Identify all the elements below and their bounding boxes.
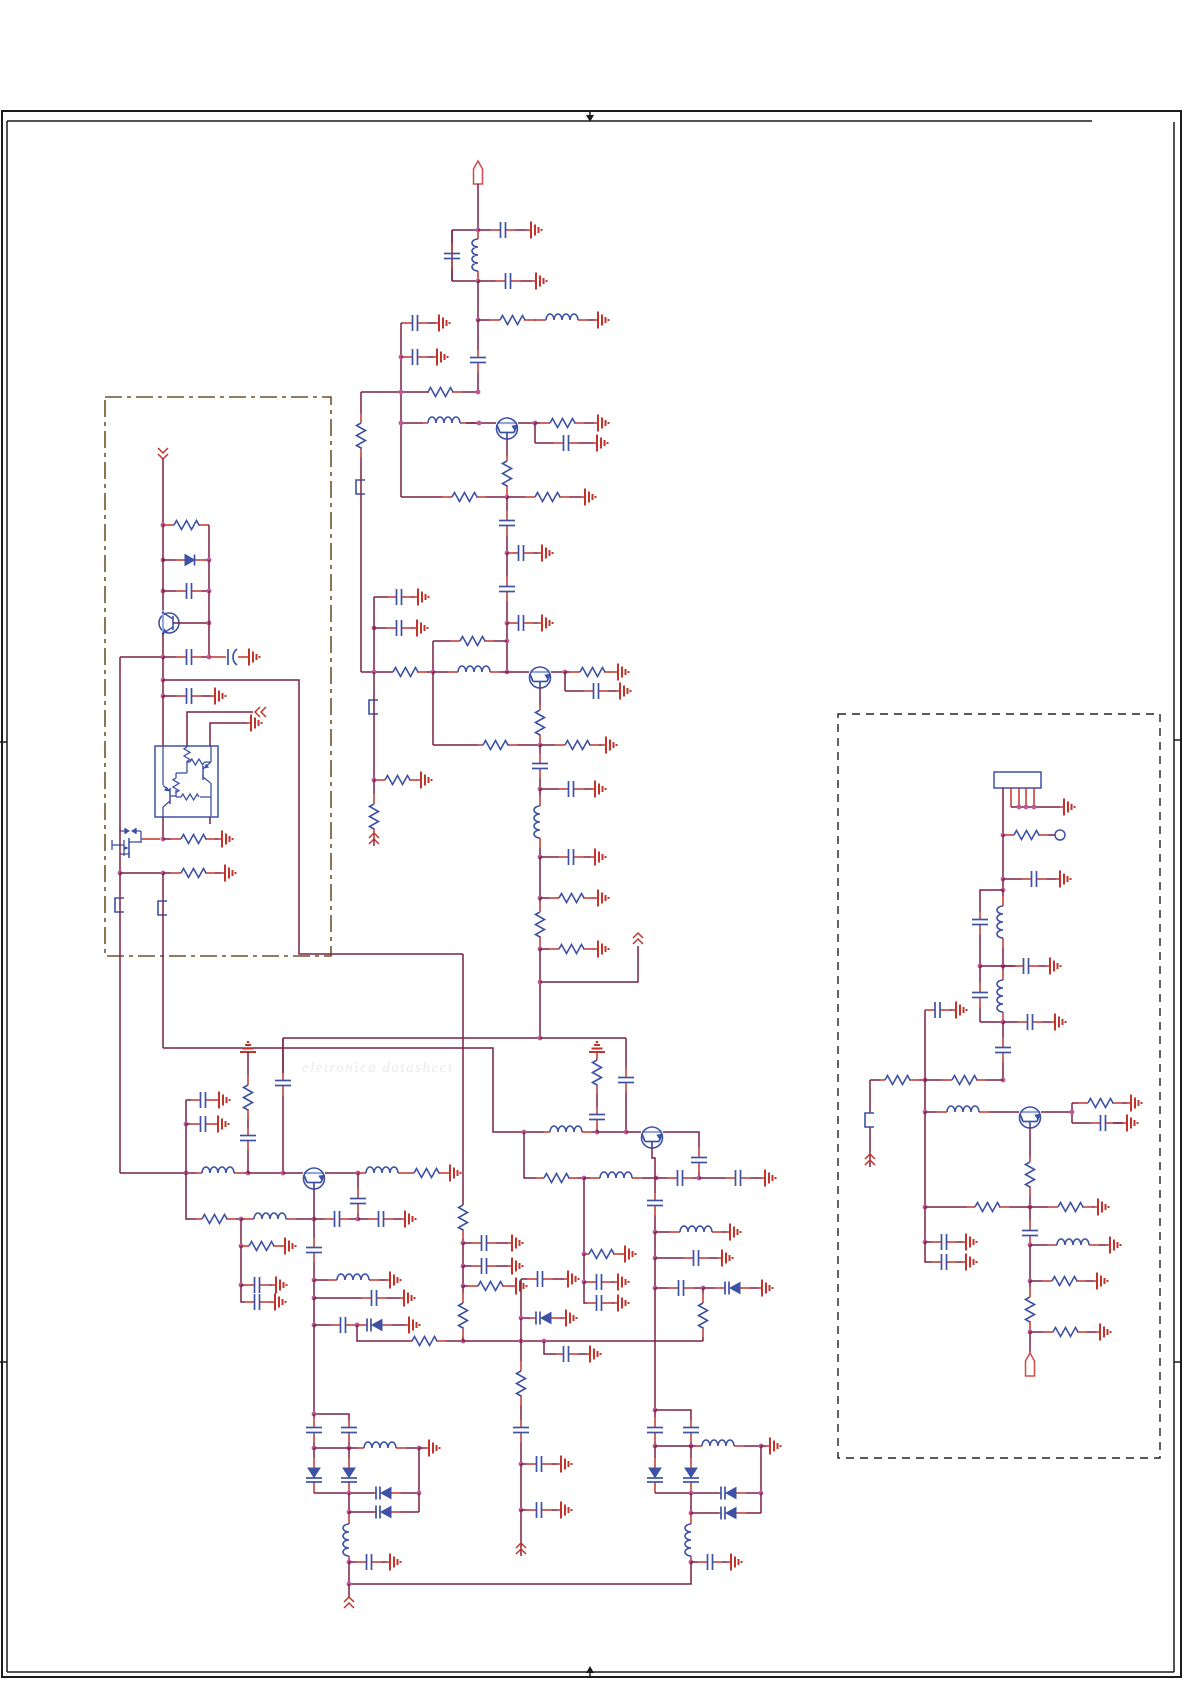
ground G48 xyxy=(614,1295,629,1312)
inductor L5 xyxy=(534,789,540,857)
ground G69 xyxy=(564,1271,579,1288)
transistor Q6 xyxy=(642,1127,663,1148)
resistor R42 xyxy=(1030,1277,1093,1286)
wire x209 591-657 xyxy=(208,591,210,657)
node 655-1446 xyxy=(653,1444,658,1449)
wire x925 top corner xyxy=(924,1010,926,1080)
antenna ANT2 xyxy=(1026,1353,1035,1376)
wire bus y1038 xyxy=(283,1037,540,1039)
wire L8 to 314 xyxy=(298,1218,314,1220)
transistor Q1 xyxy=(497,418,518,439)
resistor R37 xyxy=(925,1076,1003,1085)
capacitor C41 xyxy=(691,1145,707,1178)
node 584-1282 xyxy=(582,1280,587,1285)
inductor L20 xyxy=(1030,1239,1106,1245)
resistor R21 xyxy=(163,869,221,878)
node 419-1493 xyxy=(417,1491,422,1496)
capacitor C1 xyxy=(444,230,460,281)
node 507-553 xyxy=(505,551,510,556)
wire x507 623-672 xyxy=(506,623,508,672)
inductor L15 xyxy=(358,1442,419,1448)
ground G64 xyxy=(962,1254,977,1271)
node 479-423 xyxy=(477,421,482,426)
capacitor C12 xyxy=(388,589,414,605)
resistor R2 xyxy=(428,388,478,397)
ground G47 xyxy=(614,1274,629,1291)
node 565-672 xyxy=(563,670,568,675)
wire x349 1562-1584 xyxy=(348,1562,350,1584)
capacitor C64 xyxy=(932,1254,962,1270)
resistor R36 xyxy=(880,1076,925,1085)
wire 680 to right riser xyxy=(163,680,463,954)
ground G34 xyxy=(386,1272,401,1289)
ground G11 xyxy=(414,589,429,606)
terminal TP1 xyxy=(1055,830,1065,840)
node antenna-281 xyxy=(476,279,481,284)
resistor R22 xyxy=(406,1169,446,1178)
ground G9 xyxy=(538,545,553,562)
node 535-423 xyxy=(533,421,538,426)
inductor L7 xyxy=(358,1167,406,1173)
capacitor C48 xyxy=(655,1250,718,1266)
resistor R8 xyxy=(357,392,366,480)
resistor R15 xyxy=(536,898,545,949)
wire x314 1280-1298 xyxy=(313,1280,315,1298)
wire row497 xyxy=(401,496,430,498)
capacitor C37 xyxy=(513,1420,529,1464)
wire x524 down xyxy=(524,1132,536,1178)
resistor R7 xyxy=(433,637,507,646)
wire vin down xyxy=(162,459,164,525)
wire C62 lead xyxy=(1113,1122,1123,1124)
capacitor C53 xyxy=(341,1420,357,1448)
capacitor C50 xyxy=(683,1420,699,1446)
ground G13 xyxy=(614,664,629,681)
node 691-1493 xyxy=(689,1491,694,1496)
wire x186 1173-1219 xyxy=(186,1173,196,1219)
node 419-1448 xyxy=(417,1446,422,1451)
ground G25 xyxy=(221,865,236,882)
node 655-1410 xyxy=(653,1408,658,1413)
wire x163 591-613 xyxy=(162,591,164,613)
capacitor C36 xyxy=(463,1258,508,1274)
node 655-1258 xyxy=(653,1256,658,1261)
wire row873 xyxy=(120,872,163,874)
wire x120 bracket down xyxy=(119,898,121,1173)
capacitor C65 xyxy=(1022,1207,1038,1245)
ground G3 xyxy=(594,312,609,329)
wire x283 riser top xyxy=(282,1038,284,1073)
wire IC out bottom xyxy=(162,817,164,839)
capacitor C5 xyxy=(401,315,435,331)
node 699-1178 xyxy=(697,1176,702,1181)
capacitor C33 xyxy=(314,1290,400,1306)
node 374-780 xyxy=(372,778,377,783)
ground G5 xyxy=(433,349,448,366)
node 314-1325 xyxy=(312,1323,317,1328)
wire row657 left xyxy=(120,656,163,658)
border zone tick right xyxy=(1174,739,1181,741)
resistor R14 xyxy=(540,894,594,903)
wire left branch bottom xyxy=(452,280,478,282)
ground G55 xyxy=(386,1554,401,1571)
node 980-966 xyxy=(978,964,983,969)
node 248-1173 xyxy=(246,1171,251,1176)
wire x521 top xyxy=(521,1317,530,1319)
node 120-873 xyxy=(118,871,123,876)
ground G38 xyxy=(508,1258,523,1275)
node 209-591 xyxy=(207,589,212,594)
ground G50 xyxy=(718,1250,733,1267)
node 463-1286 xyxy=(461,1284,466,1289)
resistor R44 xyxy=(1030,1328,1096,1337)
ground G43 xyxy=(586,1346,601,1363)
wire x374 597-672 xyxy=(373,597,375,672)
node 655-1288 xyxy=(653,1286,658,1291)
wire x186 top xyxy=(186,1099,191,1101)
wire x980 to 1022 xyxy=(980,1021,1003,1023)
resistor R32 xyxy=(536,1174,584,1183)
wire Q6 emitter right xyxy=(663,1132,699,1145)
capacitor C52 xyxy=(691,1554,727,1570)
diode D10 xyxy=(341,1448,357,1493)
wire row1493 right xyxy=(655,1492,719,1494)
ground G19 xyxy=(594,941,609,958)
wire IC pin3 riser xyxy=(210,723,247,746)
node 241-1219 xyxy=(239,1217,244,1222)
node 357-1325 xyxy=(355,1323,360,1328)
node 349-1562 xyxy=(347,1560,352,1565)
capacitor C13 xyxy=(374,620,413,636)
node 1003-835 xyxy=(1001,833,1006,838)
node 186-1124 xyxy=(184,1122,189,1127)
node 349-1512 xyxy=(347,1510,352,1515)
capacitor C26 xyxy=(186,1116,214,1132)
ground G8 xyxy=(581,489,596,506)
wire x314 1325-1414 xyxy=(313,1325,315,1414)
transistor Q3 xyxy=(159,610,179,636)
wire x1030 1245-1281 xyxy=(1029,1245,1031,1281)
ground G2 xyxy=(532,273,547,290)
wire 641 corner xyxy=(432,641,434,672)
capacitor C35 xyxy=(463,1235,508,1251)
transistor Q2 xyxy=(530,667,551,688)
node 209-560 xyxy=(207,558,212,563)
node 283-1173 xyxy=(281,1171,286,1176)
node antenna-230 xyxy=(476,228,481,233)
node 761-1446 xyxy=(759,1444,764,1449)
wire x925 1080-1112 xyxy=(924,1080,926,1112)
inductor L18 xyxy=(997,966,1003,1022)
node 433-672 xyxy=(431,670,436,675)
node 463-1341 xyxy=(461,1339,466,1344)
wire row745 xyxy=(433,744,478,746)
wire 419 to ground xyxy=(419,1447,425,1449)
wire row1080 left xyxy=(870,1079,880,1081)
node 544-1341 xyxy=(542,1339,547,1344)
ground G60 xyxy=(1127,1095,1142,1112)
capacitor C14 xyxy=(565,683,616,699)
wire x463 1243-1266 xyxy=(462,1243,464,1266)
wire row966 xyxy=(980,965,1016,967)
resistor R24 xyxy=(196,1215,241,1224)
border zone tick top center with down arrow xyxy=(586,112,594,122)
wire 597 to 626 xyxy=(597,1131,626,1133)
node 209-623 xyxy=(207,621,212,626)
wire x163 696-746 xyxy=(162,696,164,746)
resistor R1 xyxy=(478,316,534,325)
connector CN1 pins xyxy=(1011,788,1034,807)
node 241-1246 xyxy=(239,1244,244,1249)
node 1034-807 xyxy=(1032,805,1037,810)
ground G14 xyxy=(616,683,631,700)
resistor R29 xyxy=(459,1286,468,1341)
diode D9 xyxy=(306,1448,322,1493)
ground G66 xyxy=(1093,1273,1108,1290)
node 626-1132 xyxy=(624,1130,629,1135)
wire 565 down branch xyxy=(564,672,566,691)
ground G67 xyxy=(1096,1324,1111,1341)
wire x655 1232-1258 xyxy=(654,1232,656,1258)
wire x120 657-873 xyxy=(119,657,121,873)
node 314-1414 xyxy=(312,1412,317,1417)
wire x314 1298-1325 xyxy=(313,1298,315,1325)
wire 283 to Q5 xyxy=(283,1172,303,1174)
node 507-641 xyxy=(505,639,510,644)
diode D5 xyxy=(647,1446,663,1493)
wire Q5 emitter xyxy=(325,1172,358,1174)
wire Q5 base xyxy=(313,1189,315,1219)
node 374-628 xyxy=(372,626,377,631)
wire row1173 left xyxy=(120,1172,196,1174)
wire D7 to 761 xyxy=(760,1446,762,1493)
node 656-1178 xyxy=(654,1176,659,1181)
wire row672 xyxy=(361,671,393,673)
resistor R17 xyxy=(374,776,417,785)
ground G62 xyxy=(1094,1199,1109,1216)
power VCC1 xyxy=(633,933,643,944)
capacitor C45 xyxy=(584,1274,614,1290)
resistor R11 xyxy=(536,705,545,745)
capacitor C49 xyxy=(655,1280,703,1296)
node 540-982 xyxy=(538,980,543,985)
capacitor C51 xyxy=(647,1410,663,1446)
inductor L1 xyxy=(472,230,478,281)
resistor R6 xyxy=(507,493,581,502)
node 314-1298 xyxy=(312,1296,317,1301)
node 1019-807 xyxy=(1017,805,1022,810)
capacitor C62 xyxy=(1072,1115,1123,1131)
capacitor C43 xyxy=(656,1170,699,1186)
capacitor C42 xyxy=(589,1107,605,1132)
node 521-1341 xyxy=(519,1339,524,1344)
ground G39 xyxy=(512,1278,527,1295)
wire x925 1207-1242 xyxy=(924,1207,926,1242)
power VCC2 xyxy=(369,833,379,844)
wire row1132 xyxy=(520,1131,544,1133)
wire x374 672-780 xyxy=(373,672,375,780)
ground G29 xyxy=(214,1116,229,1133)
inductor L4 xyxy=(433,666,529,672)
wire Q7 base down xyxy=(1029,1128,1031,1157)
wire 1038 to x626 xyxy=(540,1037,626,1039)
wire 1512 lead xyxy=(349,1511,374,1513)
wire x120 below 873 xyxy=(119,873,121,898)
capacitor C30 xyxy=(241,1277,272,1293)
ground G52 xyxy=(766,1438,781,1455)
node 314-1219 xyxy=(312,1217,317,1222)
node 507-497 xyxy=(505,495,510,500)
capacitor C28 xyxy=(314,1211,358,1227)
wire x241 down xyxy=(240,1219,242,1246)
jumper J5 xyxy=(865,1113,874,1127)
node 691-1446 xyxy=(689,1444,694,1449)
wire IC pin2 riser xyxy=(187,712,253,746)
resistor R16 xyxy=(540,945,594,954)
capacitor C59 xyxy=(972,966,988,1022)
wire R18 to vcc xyxy=(373,843,375,846)
node 401-357 xyxy=(399,355,404,360)
ground G58 xyxy=(1046,958,1061,975)
ground G63 xyxy=(962,1234,977,1251)
wire bus y955 riser xyxy=(462,954,464,1205)
capacitor C3 xyxy=(478,273,532,289)
node 163-839 xyxy=(161,837,166,842)
ground G37 xyxy=(508,1235,523,1252)
node 761-1493 xyxy=(759,1491,764,1496)
inductor L14 xyxy=(685,1513,691,1562)
dash-dot function box xyxy=(105,397,331,956)
ground G24 xyxy=(218,831,233,848)
transistor Q7 xyxy=(1020,1107,1041,1128)
ground G41 xyxy=(557,1456,572,1473)
node 925-1080 xyxy=(923,1078,928,1083)
resistor R35 xyxy=(1003,831,1055,840)
inductor L9 xyxy=(314,1274,386,1280)
wire IC pin4 stub xyxy=(209,817,211,824)
resistor R13 xyxy=(540,741,602,750)
capacitor C66 xyxy=(925,1002,952,1018)
wire left branch vertical xyxy=(451,230,453,281)
diode D2 xyxy=(357,1319,405,1332)
node 584-1254 xyxy=(582,1252,587,1257)
node 186-1173 xyxy=(184,1171,189,1176)
capacitor C20 polarized xyxy=(209,649,245,665)
node 1030-1281 xyxy=(1028,1279,1033,1284)
node 241-1285 xyxy=(239,1283,244,1288)
node 349-1584 xyxy=(347,1582,352,1587)
capacitor C19 xyxy=(163,649,209,665)
node 163-873 xyxy=(161,871,166,876)
wire row1448 xyxy=(314,1447,358,1449)
resistor R27 xyxy=(459,1205,468,1243)
ground G22 xyxy=(211,688,226,705)
wire row1493 xyxy=(314,1492,374,1494)
wire Q1 emitter to node xyxy=(518,422,535,424)
node antenna-320 xyxy=(476,318,481,323)
node 597-1132 xyxy=(595,1130,600,1135)
resistor R33 xyxy=(584,1250,621,1259)
resistor R18 xyxy=(370,780,379,843)
capacitor C8 xyxy=(499,497,515,553)
ground G54 xyxy=(425,1440,440,1457)
inductor L8 xyxy=(241,1213,298,1219)
resistor R39 xyxy=(1026,1157,1035,1207)
ground G35 xyxy=(400,1290,415,1307)
node 691-1513 xyxy=(689,1511,694,1516)
ground G42 xyxy=(557,1502,572,1519)
node 314-1280 xyxy=(312,1278,317,1283)
node 1003-966 xyxy=(1001,964,1006,969)
ground G57 xyxy=(1056,871,1071,888)
ground G17 xyxy=(591,849,606,866)
ground G59 xyxy=(1051,1014,1066,1031)
wire x925 1242-1262 xyxy=(925,1242,932,1262)
resistor R38 xyxy=(1072,1099,1127,1108)
resistor R10 xyxy=(565,668,614,677)
ground G36 xyxy=(405,1317,420,1334)
inductor L3 xyxy=(423,417,479,423)
IC U1 body xyxy=(155,746,218,817)
capacitor C55 xyxy=(349,1554,386,1570)
capacitor C16 xyxy=(540,781,591,797)
capacitor C18 xyxy=(163,583,209,599)
wire 535 down branch xyxy=(534,423,536,443)
resistor R3 xyxy=(535,419,594,428)
node 584-1178 xyxy=(582,1176,587,1181)
ground G7 xyxy=(593,435,608,452)
node 1030-1332 xyxy=(1028,1330,1033,1335)
diode D11 xyxy=(374,1487,419,1500)
wire x1003 835-879 xyxy=(1002,835,1004,879)
wire D8 corner xyxy=(760,1493,762,1513)
ground G33 xyxy=(271,1294,286,1311)
wire x521 to vcc xyxy=(520,1510,522,1556)
dashed option box xyxy=(838,714,1160,1458)
capacitor C10 xyxy=(499,553,515,623)
wire x241 1285-1302 xyxy=(241,1285,245,1302)
node 401-423 xyxy=(399,421,404,426)
node 374-672 xyxy=(372,670,377,675)
node 314-1448 xyxy=(312,1446,317,1451)
ground G1 xyxy=(527,222,542,239)
node 349-1448 xyxy=(347,1446,352,1451)
power arrow PV1 xyxy=(255,707,266,717)
capacitor C21 xyxy=(163,688,211,704)
border zone tick bottom center with up arrow xyxy=(586,1666,594,1677)
node 925-1112 xyxy=(923,1110,928,1115)
ground G18 xyxy=(594,890,609,907)
capacitor C17 xyxy=(540,849,591,865)
inductor L10 xyxy=(544,1126,597,1132)
wire node230 left branch xyxy=(452,229,478,231)
node 1003-890 xyxy=(1001,888,1006,893)
node 463-1266 xyxy=(461,1264,466,1269)
wire x186 1124-1219 xyxy=(185,1124,187,1173)
wire x1003 879-890 xyxy=(1002,879,1004,890)
wire x163 873-901 xyxy=(162,873,164,901)
node 925-1242 xyxy=(923,1240,928,1245)
wire x584 1282-1303 xyxy=(584,1282,587,1303)
antenna ANT1 xyxy=(474,161,483,184)
resistor R43 xyxy=(1026,1281,1035,1332)
resistor R34 xyxy=(699,1288,708,1341)
resistor R26 xyxy=(412,1337,463,1346)
capacitor C63 xyxy=(925,1234,962,1250)
diode D7 xyxy=(719,1487,761,1500)
resistor R25 xyxy=(241,1242,281,1251)
capacitor C44 xyxy=(699,1170,761,1186)
